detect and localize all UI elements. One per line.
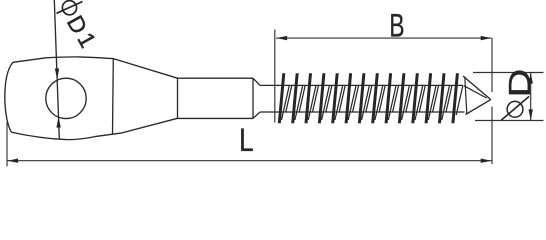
label ⌀D (rotated): diameter symbol	[507, 101, 523, 117]
svg-text:D: D	[502, 69, 537, 98]
cone tip lower edge	[466, 100, 491, 115]
shank start vertical line	[177, 78, 179, 118]
L arrow right	[481, 159, 492, 163]
taper to thread root bottom	[253, 112, 260, 118]
thread crests and root helix lines	[278, 73, 463, 123]
shank/taper transition vertical line	[252, 78, 254, 118]
cone tip upper edge	[463, 76, 491, 100]
arrowhead top (points down at circle top)	[55, 68, 59, 79]
right extension line (tip) with gap at apex	[491, 38, 493, 92]
L left extension line	[6, 122, 8, 167]
eye outline	[5, 57, 178, 140]
root helix diagonals	[282, 85, 463, 120]
⌀D extension line bottom	[475, 120, 544, 122]
thread blades (crests)	[278, 73, 459, 123]
thread root bottom line	[260, 111, 465, 113]
arrowhead bottom (points up at circle bottom)	[56, 117, 60, 128]
svg-text:L: L	[239, 122, 253, 158]
shank top line	[178, 77, 254, 79]
⌀D extension line top	[473, 72, 544, 74]
⌀D dimension line	[530, 73, 532, 121]
helix line on cone	[464, 86, 487, 98]
eye/neck boundary line	[112, 59, 115, 134]
dimension leader line D1 (through hole)	[54, 0, 59, 139]
B dimension line	[276, 37, 492, 39]
svg-text:B: B	[389, 7, 404, 43]
B arrow right	[481, 36, 492, 40]
L dimension line	[7, 160, 492, 162]
shank bottom line	[178, 117, 254, 119]
⌀D arrow up	[529, 73, 533, 84]
B arrow left	[276, 36, 287, 40]
hole circle	[46, 78, 86, 118]
thread root top line	[260, 84, 463, 86]
taper to thread root top	[253, 78, 260, 85]
thread start vertical line / B extension line left	[274, 30, 276, 123]
⌀D arrow down	[529, 109, 533, 120]
L arrow left	[7, 159, 18, 163]
label ⌀D1 (rotated): diameter symbol	[62, 1, 76, 15]
cone base line (thread runout)	[465, 77, 467, 114]
